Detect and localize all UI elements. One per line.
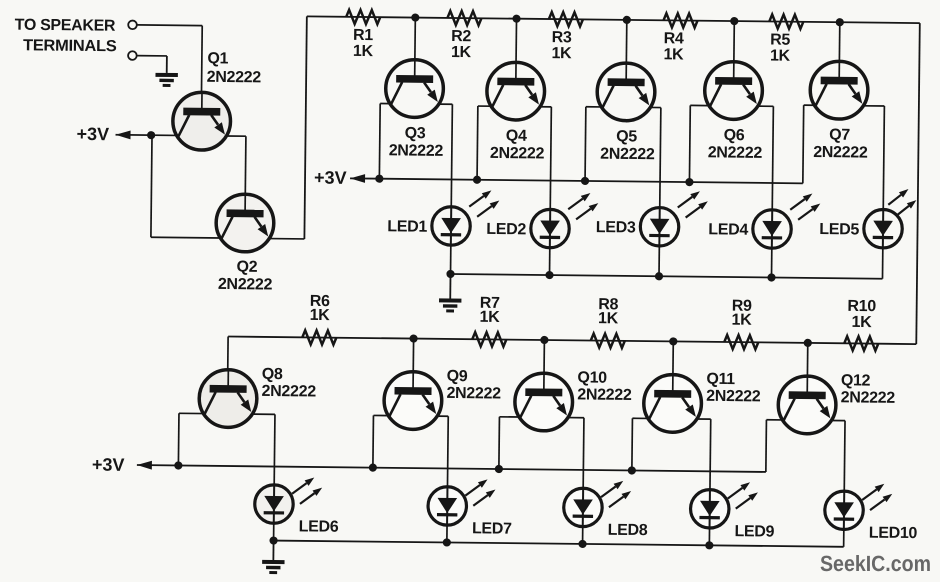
svg-text:Q5: Q5: [616, 128, 637, 145]
junction node Q4 collector / +3V: [473, 176, 481, 184]
wire LED9 cathode to ground rail: [708, 528, 710, 545]
wire Q3 base from rail: [414, 18, 417, 77]
svg-text:+3V: +3V: [314, 167, 347, 187]
junction node LED9 gnd: [705, 541, 713, 549]
wire Q8 emitter right: [252, 413, 274, 415]
wire Q5 base from rail: [625, 20, 628, 80]
LED LED2: [531, 192, 599, 248]
wire Q7 collector left: [804, 104, 815, 106]
wire: ground rail (top LED row): [451, 274, 883, 279]
resistor R8: [591, 334, 625, 348]
transistor Q10: [515, 373, 573, 431]
ground G3 (bottom LED row): [262, 540, 285, 574]
svg-text:1K: 1K: [480, 309, 501, 326]
resistor R2: [447, 11, 481, 25]
transistor Q6: [704, 61, 762, 119]
junction node Q8 collector / +3V: [174, 461, 182, 469]
svg-text:Q8: Q8: [262, 366, 283, 383]
wire Q6 emitter right: [758, 105, 773, 107]
wire: top resistor rail: [307, 16, 920, 23]
wire Q12 emitter down to LED10: [843, 421, 846, 491]
LED LED4: [753, 193, 821, 249]
wire Q9 collector drop to +3V rail: [372, 415, 375, 467]
junction node Q3 collector / +3V: [375, 175, 383, 183]
junction node LED6 gnd: [269, 536, 277, 544]
terminal: speaker terminal 2: [128, 51, 137, 60]
junction node LED7 gnd: [443, 538, 451, 546]
svg-text:TERMINALS: TERMINALS: [23, 37, 117, 55]
resistor R4: [663, 13, 697, 27]
wire Q6 collector left: [690, 104, 708, 106]
svg-text:1K: 1K: [663, 46, 684, 63]
svg-text:Q7: Q7: [829, 127, 850, 144]
wire Q10 collector drop to +3V rail: [498, 417, 501, 469]
junction node Q11 collector / +3V: [628, 466, 636, 474]
wire Q5 collector left: [586, 106, 601, 108]
svg-text:1K: 1K: [353, 43, 374, 60]
wire Q6 base from rail: [733, 21, 736, 78]
wire Q9 emitter right: [437, 415, 448, 417]
wire to Q2 collector edge: [151, 236, 220, 239]
junction node Q11 base / rail: [669, 337, 677, 345]
wire Q4 emitter right: [540, 106, 551, 108]
wire: right edge vertical (top rail to R10): [916, 23, 920, 344]
svg-text:Q11: Q11: [706, 371, 735, 388]
svg-text:LED7: LED7: [472, 520, 512, 537]
svg-text:2N2222: 2N2222: [600, 146, 655, 164]
wire LED6 cathode to ground rail: [273, 523, 275, 540]
svg-text:LED6: LED6: [299, 518, 339, 535]
junction node LED2 gnd: [545, 271, 553, 279]
wire LED8 cathode to ground rail: [582, 527, 584, 544]
wire +3V rail riser to Q12 collector: [765, 420, 768, 472]
LED LED3: [640, 191, 708, 247]
junction node Q4 base: [512, 15, 520, 23]
wire LED1 cathode to ground rail: [450, 245, 452, 274]
resistor R6: [302, 330, 336, 344]
wire Q4 collector left: [478, 105, 491, 107]
wire LED7 cathode to ground rail: [446, 525, 448, 542]
wire: +3V rail (top LED row): [350, 178, 803, 183]
power +3V arrow (middle): [350, 174, 365, 183]
LED LED7: [428, 479, 496, 526]
junction node Q6 collector / +3V: [685, 178, 693, 186]
svg-text:LED10: LED10: [869, 525, 918, 543]
svg-text:Q10: Q10: [577, 369, 607, 386]
svg-text:1K: 1K: [851, 314, 872, 331]
junction node Q9 collector / +3V: [369, 463, 377, 471]
junction node LED8 gnd: [578, 540, 586, 548]
transistor Q12: [778, 376, 836, 434]
transistor Q11: [643, 374, 701, 432]
wire Q8 base from rail corner: [227, 337, 230, 387]
wire +3V rail riser to Q7 collector: [802, 105, 805, 183]
LED LED9: [690, 482, 758, 529]
wire Q5 emitter right: [650, 106, 660, 108]
svg-text:R1: R1: [353, 27, 373, 44]
svg-text:2N2222: 2N2222: [841, 389, 896, 407]
svg-text:Q9: Q9: [447, 368, 468, 385]
svg-text:2N2222: 2N2222: [706, 388, 761, 406]
wire Q11 collector drop to +3V rail: [631, 418, 634, 470]
wire Q7 base from rail: [838, 22, 841, 78]
wire Q4 base from rail: [515, 19, 518, 79]
wire: bottom resistor rail: [228, 337, 916, 345]
junction node LED3 gnd: [655, 272, 663, 280]
svg-text:1K: 1K: [770, 47, 791, 64]
svg-text:LED9: LED9: [734, 523, 774, 540]
junction node LED4 gnd: [767, 273, 775, 281]
svg-text:LED4: LED4: [708, 221, 748, 238]
resistor R5: [769, 14, 803, 28]
transistor Q9: [384, 371, 442, 429]
svg-text:LED5: LED5: [819, 221, 859, 238]
svg-text:R2: R2: [451, 28, 471, 45]
svg-text:R4: R4: [664, 30, 684, 47]
svg-text:2N2222: 2N2222: [577, 386, 632, 404]
junction node Q12 base / rail: [804, 339, 812, 347]
svg-text:+3V: +3V: [76, 124, 109, 144]
junction node Q5 collector / +3V: [581, 177, 589, 185]
wire Q8 collector drop to +3V rail: [177, 413, 180, 465]
ground G1 (speaker return): [155, 56, 178, 87]
wire Q6 emitter down to LED4: [772, 106, 773, 209]
wire Q3 collector left: [380, 102, 390, 104]
wire Q4 collector drop to +3V rail: [476, 106, 479, 180]
resistor R3: [549, 12, 583, 26]
junction node LED1 gnd: [446, 270, 454, 278]
wire Q4 emitter down to LED2: [550, 107, 551, 209]
wire LED10 cathode to ground rail: [843, 530, 845, 547]
wire +3V to Q1 collector: [116, 134, 177, 137]
svg-text:1K: 1K: [732, 312, 753, 329]
svg-text:LED8: LED8: [608, 522, 648, 539]
svg-text:2N2222: 2N2222: [262, 383, 317, 401]
svg-text:1K: 1K: [310, 307, 331, 324]
transistor Q5: [597, 63, 655, 121]
junction node Q7 base: [836, 18, 844, 26]
wire Q3 emitter down to LED1: [451, 104, 452, 206]
ground G2 (top LED row): [439, 274, 462, 313]
wire terminal1 to Q1 base corner: [137, 24, 202, 27]
junction node Q3 base: [411, 13, 419, 21]
svg-text:2N2222: 2N2222: [389, 142, 444, 160]
wire Q10 collector left: [499, 416, 518, 418]
transistor Q4: [487, 62, 545, 120]
svg-text:Q6: Q6: [724, 127, 745, 144]
wire Q10 emitter right: [568, 417, 584, 419]
wire down to Q2 collector: [151, 135, 152, 237]
svg-text:2N2222: 2N2222: [207, 69, 262, 87]
wire Q6 collector drop to +3V rail: [688, 105, 691, 182]
wire Q10 base from rail: [543, 340, 546, 390]
wire Q5 emitter down to LED3: [660, 108, 661, 208]
wire Q3 collector drop to +3V rail: [378, 103, 381, 178]
svg-text:SeekIC.com: SeekIC.com: [820, 551, 931, 576]
svg-text:+3V: +3V: [92, 455, 125, 475]
wire Q12 base from rail: [806, 343, 809, 393]
wire Q5 collector drop to +3V rail: [584, 107, 587, 181]
junction node Q10 base / rail: [540, 336, 548, 344]
wire Q11 base from rail: [672, 341, 675, 391]
LED LED10: [825, 483, 893, 530]
LED LED6: [255, 477, 323, 524]
wire terminal2 to ground: [137, 55, 167, 57]
resistor R1: [346, 10, 380, 24]
svg-text:Q4: Q4: [506, 128, 527, 145]
wire LED2 cathode to ground rail: [549, 248, 551, 275]
power +3V arrow (bottom): [137, 461, 152, 470]
wire Q3 emitter right: [439, 103, 452, 105]
svg-text:LED3: LED3: [596, 219, 636, 236]
svg-text:R3: R3: [552, 29, 572, 46]
wire Q11 emitter down to LED9: [709, 419, 712, 489]
transistor Q1: [173, 92, 231, 150]
resistor R10: [844, 336, 878, 350]
junction node Q5 base: [623, 16, 631, 24]
svg-text:1K: 1K: [451, 44, 472, 61]
LED LED5: [864, 189, 917, 249]
junction node +3V/Q2 collector: [147, 131, 155, 139]
junction node Q9 base / rail: [409, 334, 417, 342]
transistor Q7: [810, 61, 868, 119]
svg-text:2N2222: 2N2222: [708, 144, 763, 162]
wire Q11 collector left: [632, 417, 647, 419]
junction node Q10 collector / +3V: [495, 465, 503, 473]
resistor R7: [472, 332, 506, 346]
svg-text:1K: 1K: [598, 310, 619, 327]
wire down to Q1 base: [200, 26, 203, 109]
wire Q9 collector left: [373, 414, 388, 416]
junction node Q6 base: [730, 17, 738, 25]
wire Q11 emitter right: [697, 418, 711, 420]
wire: Q2 emitter riser to top rail: [304, 16, 306, 239]
svg-text:R10: R10: [847, 298, 876, 315]
wire Q2 emitter to riser: [269, 238, 304, 240]
svg-text:2N2222: 2N2222: [813, 144, 868, 162]
wire: +3V rail (bottom): [137, 465, 766, 472]
transistor Q3: [385, 59, 443, 117]
svg-text:Q3: Q3: [405, 125, 426, 142]
wire LED5 cathode riser to ground rail: [881, 248, 883, 279]
svg-text:2N2222: 2N2222: [490, 145, 545, 163]
wire Q7 emitter right: [863, 105, 884, 107]
power +3V arrow (left): [115, 130, 130, 139]
resistor R9: [724, 335, 758, 349]
svg-text:Q1: Q1: [207, 50, 228, 67]
wire Q9 emitter down to LED7: [446, 416, 449, 486]
wire Q10 emitter down to LED8: [582, 418, 585, 488]
terminal: speaker terminal 1: [128, 21, 137, 30]
svg-text:Q12: Q12: [841, 372, 871, 389]
LED LED1: [432, 190, 500, 246]
transistor Q2: [216, 194, 274, 252]
LED LED8: [564, 480, 632, 527]
svg-text:2N2222: 2N2222: [446, 385, 501, 403]
wire Q9 base from rail: [412, 339, 415, 389]
svg-text:2N2222: 2N2222: [218, 276, 273, 294]
wire LED3 cathode to ground rail: [658, 246, 660, 276]
wire Q7 emitter down to LED5: [883, 106, 884, 209]
svg-text:LED2: LED2: [486, 221, 526, 238]
wire down to Q2 base: [244, 136, 247, 194]
svg-text:TO SPEAKER: TO SPEAKER: [15, 17, 116, 35]
svg-text:Q2: Q2: [236, 259, 257, 276]
wire Q1 emitter to Q2 base corner: [226, 135, 245, 137]
wire Q12 collector left: [766, 419, 782, 421]
wire Q8 emitter down to LED6: [273, 414, 276, 484]
svg-text:R5: R5: [770, 31, 790, 48]
wire LED4 cathode to ground rail: [770, 248, 772, 277]
transistor Q8: [199, 369, 257, 427]
svg-text:LED1: LED1: [387, 218, 427, 235]
wire Q8 collector left: [179, 412, 203, 414]
wire: ground rail (bottom LED row): [274, 541, 844, 547]
wire Q12 emitter right: [832, 419, 845, 421]
svg-text:1K: 1K: [551, 45, 572, 62]
